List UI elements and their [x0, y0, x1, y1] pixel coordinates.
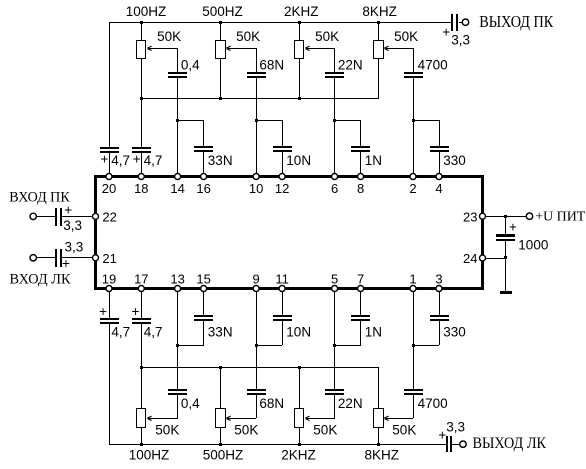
svg-text:50K: 50K: [392, 422, 416, 437]
svg-text:500HZ: 500HZ: [202, 4, 243, 19]
svg-text:14: 14: [170, 181, 184, 196]
svg-text:+: +: [99, 304, 107, 319]
svg-text:4,7: 4,7: [144, 153, 163, 168]
svg-text:1N: 1N: [365, 153, 382, 168]
svg-text:8KHZ: 8KHZ: [362, 4, 397, 19]
svg-text:4700: 4700: [418, 396, 448, 411]
svg-text:10N: 10N: [286, 153, 311, 168]
svg-text:3,3: 3,3: [451, 33, 470, 48]
svg-text:ВЫХОД ЛК: ВЫХОД ЛК: [473, 435, 547, 452]
svg-text:23: 23: [463, 209, 477, 224]
svg-text:1000: 1000: [518, 237, 548, 252]
svg-text:50K: 50K: [313, 422, 337, 437]
svg-text:+: +: [133, 151, 141, 166]
svg-text:1N: 1N: [365, 324, 382, 339]
svg-text:33N: 33N: [208, 324, 233, 339]
svg-text:13: 13: [170, 271, 184, 286]
svg-text:50K: 50K: [155, 422, 179, 437]
svg-text:ВЫХОД ПК: ВЫХОД ПК: [479, 12, 554, 31]
svg-text:500HZ: 500HZ: [203, 448, 244, 463]
svg-text:6: 6: [331, 181, 338, 196]
svg-text:+: +: [442, 24, 450, 39]
svg-text:22N: 22N: [338, 58, 363, 73]
svg-text:11: 11: [275, 271, 289, 286]
svg-text:3,3: 3,3: [63, 218, 82, 233]
svg-text:4,7: 4,7: [144, 324, 163, 339]
svg-text:2KHZ: 2KHZ: [284, 4, 319, 19]
svg-text:+: +: [62, 256, 70, 271]
svg-text:3,3: 3,3: [65, 240, 84, 255]
svg-text:16: 16: [196, 181, 210, 196]
svg-text:3: 3: [435, 271, 442, 286]
svg-text:+: +: [509, 219, 517, 234]
svg-text:10: 10: [249, 181, 263, 196]
svg-text:7: 7: [357, 271, 364, 286]
svg-text:2: 2: [409, 181, 416, 196]
svg-text:+U ПИТ: +U ПИТ: [535, 208, 586, 223]
svg-text:17: 17: [134, 271, 148, 286]
svg-text:21: 21: [102, 251, 116, 266]
svg-text:10N: 10N: [286, 324, 311, 339]
svg-text:50K: 50K: [236, 29, 260, 44]
svg-text:8: 8: [357, 181, 364, 196]
svg-text:4,7: 4,7: [111, 153, 130, 168]
svg-text:ВХОД ПК: ВХОД ПК: [9, 189, 70, 205]
svg-text:100HZ: 100HZ: [126, 4, 167, 19]
svg-text:100HZ: 100HZ: [129, 448, 170, 463]
svg-text:0,4: 0,4: [181, 396, 200, 411]
svg-text:2KHZ: 2KHZ: [281, 448, 316, 463]
svg-text:68N: 68N: [259, 396, 284, 411]
svg-text:5: 5: [331, 271, 338, 286]
svg-text:1: 1: [409, 271, 416, 286]
svg-text:22: 22: [102, 210, 116, 225]
svg-text:330: 330: [443, 153, 466, 168]
svg-text:12: 12: [275, 181, 289, 196]
svg-text:50K: 50K: [315, 29, 339, 44]
svg-text:+: +: [438, 428, 446, 443]
svg-text:50K: 50K: [234, 422, 258, 437]
svg-text:18: 18: [134, 181, 148, 196]
svg-text:33N: 33N: [208, 153, 233, 168]
svg-text:8KHZ: 8KHZ: [365, 448, 400, 463]
svg-text:330: 330: [443, 324, 466, 339]
svg-text:50K: 50K: [394, 29, 418, 44]
svg-text:22N: 22N: [338, 396, 363, 411]
svg-text:4,7: 4,7: [111, 324, 130, 339]
svg-text:9: 9: [252, 271, 259, 286]
svg-text:50K: 50K: [157, 29, 181, 44]
svg-text:20: 20: [102, 181, 116, 196]
svg-text:19: 19: [102, 271, 116, 286]
svg-text:4700: 4700: [418, 58, 448, 73]
svg-text:+: +: [131, 304, 139, 319]
svg-text:+: +: [100, 151, 108, 166]
svg-text:24: 24: [463, 251, 477, 266]
svg-text:0,4: 0,4: [181, 58, 200, 73]
svg-text:68N: 68N: [259, 58, 284, 73]
svg-text:4: 4: [435, 181, 442, 196]
svg-text:ВХОД ЛК: ВХОД ЛК: [10, 272, 71, 288]
svg-text:3,3: 3,3: [446, 420, 465, 435]
svg-text:15: 15: [196, 271, 210, 286]
